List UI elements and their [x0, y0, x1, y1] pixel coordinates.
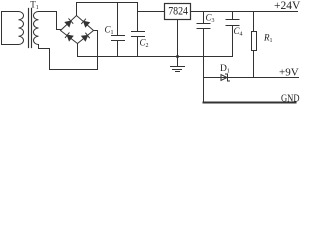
bridge diode lower-right	[82, 33, 90, 41]
wire secondary bottom to bridge right corner	[39, 31, 98, 70]
bridge diode upper-left	[65, 19, 73, 27]
svg-text:C2: C2	[140, 38, 149, 50]
wire primary left side	[1, 12, 3, 45]
regulator ground pin	[177, 20, 179, 57]
transformer T1 secondary winding	[34, 12, 39, 45]
capacitor C3 top lead	[203, 12, 205, 24]
capacitor C1	[112, 36, 125, 41]
capacitor C3	[197, 24, 210, 29]
svg-text:C1: C1	[105, 25, 114, 37]
wire primary bottom lead	[2, 44, 19, 46]
wire bridge bottom corner down to ground rail	[77, 44, 79, 57]
svg-text:D1: D1	[220, 64, 230, 75]
svg-text:7824: 7824	[168, 4, 188, 18]
capacitor C4 bottom lead	[232, 26, 234, 57]
capacitor C4 top lead	[232, 12, 234, 20]
capacitor C1 bottom lead	[117, 41, 119, 57]
wire ground drop to GND line	[203, 57, 205, 103]
capacitor C2 bottom lead	[137, 37, 139, 57]
wire bridge top corner to regulator input	[77, 3, 165, 16]
bridge diode upper-right	[82, 19, 90, 27]
capacitor C4	[226, 20, 239, 26]
resistor R1 bottom lead	[253, 51, 255, 78]
wire primary top lead	[2, 11, 19, 13]
ground symbol	[171, 57, 185, 72]
resistor R1	[252, 32, 257, 51]
svg-text:C4: C4	[234, 26, 243, 38]
junction dot	[176, 55, 179, 58]
transformer T1 core	[29, 9, 32, 48]
wire secondary top to bridge left corner	[39, 12, 61, 30]
wire GND line	[204, 102, 296, 104]
svg-text:+24V: +24V	[274, 0, 301, 12]
bridge rectifier diamond	[61, 16, 94, 44]
wire ground rail	[78, 56, 233, 58]
capacitor C2 top lead	[137, 12, 139, 32]
transformer T1 primary winding	[19, 12, 24, 45]
diode D1 zener	[221, 75, 227, 81]
capacitor C1 top lead	[117, 3, 119, 36]
svg-text:GND: GND	[281, 94, 300, 105]
wire regulator output rail +24V	[191, 11, 298, 13]
capacitor C2	[132, 32, 145, 37]
capacitor C3 bottom lead	[203, 29, 205, 57]
regulator U1 7824 box	[165, 4, 191, 20]
resistor R1 top lead	[253, 12, 255, 32]
wire +9V line	[204, 77, 299, 79]
bridge diode lower-left	[65, 33, 73, 41]
svg-text:C3: C3	[206, 13, 215, 25]
svg-text:+9V: +9V	[279, 67, 299, 79]
svg-text:R1: R1	[263, 33, 273, 45]
